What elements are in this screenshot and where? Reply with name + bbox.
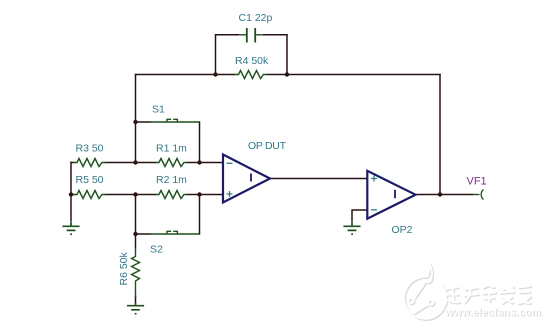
svg-text:R5 50: R5 50: [76, 174, 104, 186]
svg-text:R3 50: R3 50: [76, 143, 104, 155]
svg-text:C1 22p: C1 22p: [239, 12, 273, 24]
svg-text:R2 1m: R2 1m: [156, 174, 187, 186]
svg-text:S2: S2: [150, 244, 163, 256]
svg-text:OP DUT: OP DUT: [248, 140, 287, 152]
svg-text:S1: S1: [152, 104, 165, 116]
svg-text:VF1: VF1: [467, 176, 487, 188]
svg-text:R1 1m: R1 1m: [156, 143, 187, 155]
svg-text:OP2: OP2: [392, 224, 413, 236]
svg-text:R4 50k: R4 50k: [235, 55, 269, 67]
svg-text:R6 50k: R6 50k: [118, 251, 130, 285]
